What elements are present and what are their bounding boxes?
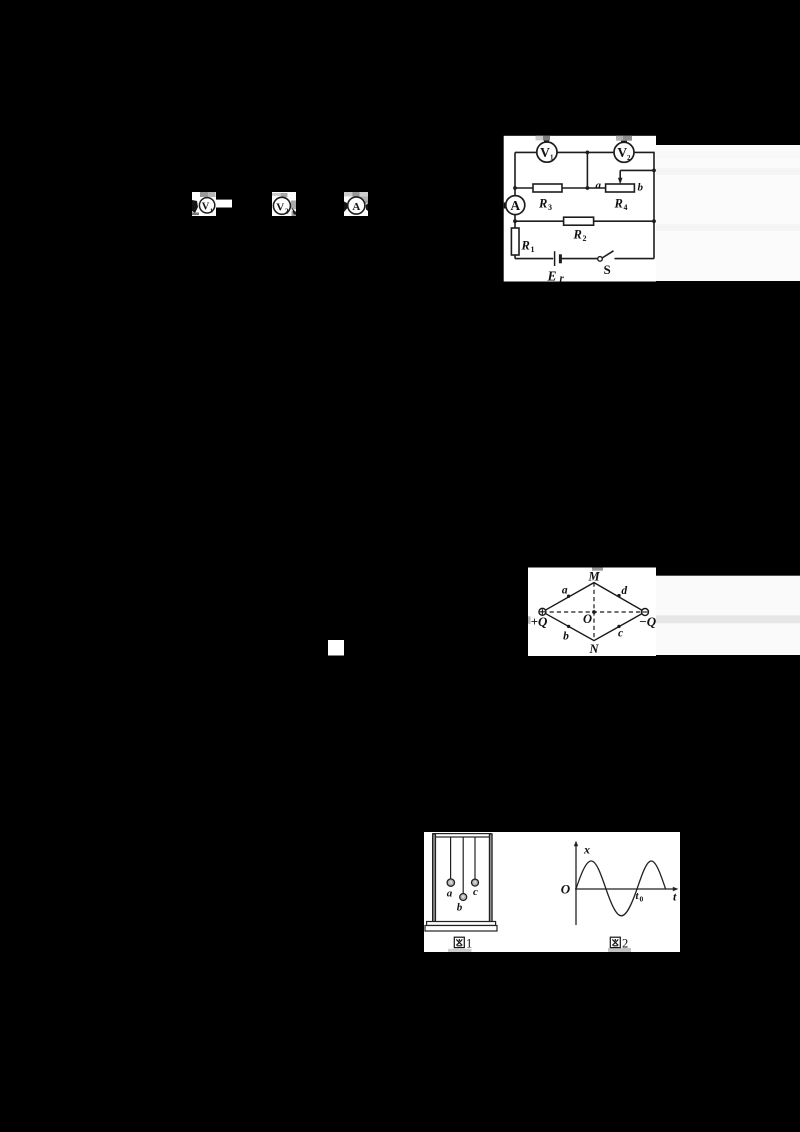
svg-text:R: R [614,197,623,211]
svg-text:r: r [560,273,565,285]
svg-text:x: x [583,843,590,857]
svg-text:3: 3 [548,203,552,212]
svg-text:d: d [621,585,627,597]
svg-text:0: 0 [640,895,644,904]
svg-text:V: V [540,145,550,160]
svg-text:−Q: −Q [639,614,657,629]
svg-text:V: V [276,201,284,213]
svg-text:b: b [638,182,644,194]
svg-text:a: a [596,180,602,192]
svg-text:R: R [521,239,530,253]
svg-text:O: O [561,882,571,897]
svg-text:O: O [583,612,592,626]
svg-text:M: M [587,570,600,584]
svg-text:b: b [563,631,569,643]
svg-text:1: 1 [210,207,213,214]
svg-text:1: 1 [531,245,535,254]
svg-text:4: 4 [624,203,628,212]
svg-text:R: R [538,197,547,211]
svg-text:a: a [562,585,568,597]
svg-text:S: S [604,262,611,277]
svg-text:2: 2 [583,234,587,243]
svg-text:E: E [547,269,557,284]
svg-text:1: 1 [550,154,554,162]
svg-text:A: A [352,201,360,213]
svg-text:a: a [447,888,453,900]
svg-text:V: V [617,145,627,160]
svg-text:c: c [473,886,478,898]
svg-text:1: 1 [466,937,472,951]
svg-text:b: b [457,902,463,914]
svg-text:2: 2 [622,937,628,951]
svg-text:2: 2 [285,207,289,215]
svg-text:N: N [588,642,599,656]
svg-text:A: A [510,198,520,213]
svg-text:+Q: +Q [531,614,548,629]
svg-text:c: c [618,628,623,640]
svg-text:2: 2 [627,154,631,162]
svg-text:V: V [202,202,210,213]
svg-text:R: R [573,228,582,242]
